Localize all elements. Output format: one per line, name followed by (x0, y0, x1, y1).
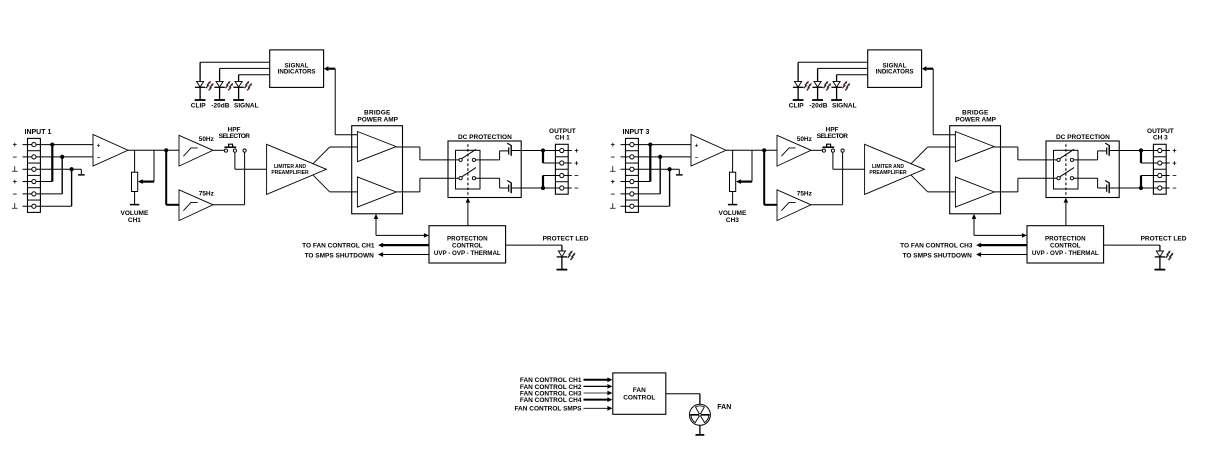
wire relay A to output device (476, 159, 500, 161)
wire FAN CONTROL CH3 (arrow) (584, 392, 609, 394)
svg-text:PROTECT LED: PROTECT LED (1141, 235, 1187, 242)
svg-text:BRIDGE: BRIDGE (962, 110, 989, 117)
svg-text:CONTROL: CONTROL (623, 395, 655, 402)
wire TO SMPS SHUTDOWN (arrow) (980, 254, 1027, 256)
wire to SIGNAL led (239, 74, 270, 76)
wire protection to DC relay (arrow up) (1065, 202, 1067, 226)
svg-text:75Hz: 75Hz (199, 191, 215, 198)
svg-text:50Hz: 50Hz (199, 136, 215, 143)
wire FAN CONTROL CH1 (arrow) (584, 379, 609, 381)
wire bridge out A (396, 146, 420, 148)
LED SIGNAL (235, 81, 242, 87)
wire switch pole to 75Hz out (842, 152, 844, 205)
svg-text:CONTROL: CONTROL (1050, 242, 1081, 249)
svg-text:TO SMPS SHUTDOWN: TO SMPS SHUTDOWN (903, 252, 973, 259)
svg-text:PREAMPLIFIER: PREAMPLIFIER (869, 170, 907, 176)
relay contact B (462, 168, 476, 177)
input terminal block J3 (626, 138, 639, 212)
wire to SIGNAL led (837, 74, 868, 76)
block FAN CONTROL (613, 373, 666, 414)
svg-text:FAN: FAN (633, 387, 646, 394)
output device Q-A (1106, 147, 1108, 154)
svg-text:CLIP: CLIP (191, 102, 206, 109)
potentiometer VOLUME CH1 (132, 172, 138, 191)
wire pot wiper (bold arrow) (142, 181, 155, 183)
svg-text:CH 3: CH 3 (1153, 135, 1168, 142)
svg-text:−: − (611, 189, 616, 198)
wire output A link (bold) (542, 151, 544, 164)
relay contact A (1060, 149, 1074, 158)
filter 50Hz HPF (777, 135, 811, 166)
svg-text:TO FAN CONTROL CH3: TO FAN CONTROL CH3 (900, 243, 973, 250)
relay box (456, 150, 481, 189)
svg-text:−: − (13, 189, 18, 198)
wire output A (511, 150, 543, 152)
svg-text:DC PROTECTION: DC PROTECTION (458, 134, 512, 141)
block BRIDGE POWER AMP PA3 (950, 126, 1001, 214)
svg-text:TO SMPS SHUTDOWN: TO SMPS SHUTDOWN (305, 252, 375, 259)
node output A junction (541, 148, 545, 152)
wire output B (511, 187, 543, 189)
output terminal block OUT3 (1153, 144, 1166, 194)
op-amp bridge half A (357, 132, 396, 162)
wire FAN CONTROL CH4 (arrow) (584, 399, 609, 401)
svg-text:CONTROL: CONTROL (452, 242, 483, 249)
wire to CLIP led (798, 61, 868, 63)
fan M1 (689, 404, 710, 425)
svg-text:POWER AMP: POWER AMP (357, 117, 398, 124)
wire input 1 pin6 link (23, 205, 72, 207)
output device Q-B (1106, 185, 1108, 192)
svg-text:-20dB: -20dB (809, 102, 827, 109)
wire fan control to fan (666, 393, 700, 395)
svg-text:FAN CONTROL CH4: FAN CONTROL CH4 (520, 397, 582, 404)
wire relay B to output device (1074, 177, 1098, 179)
svg-text:⊥: ⊥ (12, 165, 19, 174)
LED CLIP (197, 81, 204, 87)
node pin2 junction (658, 155, 662, 159)
svg-text:−: − (695, 156, 699, 162)
wire output A link (bold) (1140, 151, 1142, 164)
wire input 3 pin6 link (621, 205, 670, 207)
svg-text:DC PROTECTION: DC PROTECTION (1056, 134, 1110, 141)
wire protection to bridge (arrow up) (375, 218, 377, 235)
svg-text:-20dB: -20dB (211, 102, 229, 109)
wire TO FAN CONTROL CH3 (bold arrow) (980, 244, 1027, 246)
wire to -20dB led (818, 67, 868, 69)
svg-text:−: − (574, 184, 579, 193)
wire switch common to limiter (234, 152, 236, 169)
wire bridge out B (396, 191, 420, 193)
svg-text:SIGNAL: SIGNAL (234, 102, 259, 109)
wire protection to DC relay (arrow up) (467, 202, 469, 226)
wire input 3 pin1 hot to amp + (621, 144, 692, 146)
wire switch pole to 75Hz out (244, 152, 246, 205)
svg-text:FAN CONTROL SMPS: FAN CONTROL SMPS (514, 406, 582, 413)
relay contact B (1060, 168, 1074, 177)
node output A junction (1139, 148, 1143, 152)
wire output A (1109, 150, 1141, 152)
svg-text:UVP - OVP - THERMAL: UVP - OVP - THERMAL (434, 250, 501, 257)
LED SIGNAL (833, 81, 840, 87)
wire bridge tap to signal indicators (335, 134, 357, 136)
svg-text:FAN: FAN (717, 404, 731, 411)
svg-text:+: + (611, 140, 616, 149)
svg-text:TO FAN CONTROL CH1: TO FAN CONTROL CH1 (302, 243, 375, 250)
wire output B (1109, 187, 1141, 189)
wire input 1 pin4 link (23, 181, 53, 183)
svg-text:+: + (611, 177, 616, 186)
wire to volume pot (134, 150, 136, 172)
svg-text:+: + (13, 140, 18, 149)
relay actuator dashed line (1065, 144, 1067, 195)
wire bridge tap to signal indicators (933, 134, 955, 136)
wire relay B to output device (476, 177, 500, 179)
svg-text:+: + (574, 146, 579, 155)
block SIGNAL INDICATORS (270, 50, 324, 88)
filter 75Hz HPF (179, 190, 213, 221)
amplifier LIMITER AND PREAMPLIFIER U3 (865, 144, 925, 194)
amplifier LIMITER AND PREAMPLIFIER U1 (267, 144, 327, 194)
terminal contacts (630, 142, 634, 146)
node output B junction (1139, 186, 1143, 190)
ground (80, 169, 82, 175)
ground (678, 169, 680, 175)
svg-text:50Hz: 50Hz (797, 136, 813, 143)
block DC PROTECTION K1 (448, 141, 521, 198)
wire to volume pot (732, 150, 734, 172)
wire input 3 pin4 link (621, 181, 651, 183)
wire to protect LED (506, 244, 562, 246)
block PROTECTION CONTROL U1P (429, 226, 506, 263)
wire input 3 pin2 cold to amp - (621, 156, 692, 158)
svg-text:+: + (695, 143, 699, 149)
LED -20dB (814, 81, 821, 87)
wire FAN CONTROL CH2 (arrow) (584, 385, 609, 387)
svg-text:PROTECT LED: PROTECT LED (543, 235, 589, 242)
LED PROTECT D3 (1156, 251, 1163, 257)
output device Q-A (508, 147, 510, 154)
wire FAN CONTROL SMPS (arrow) (584, 407, 609, 409)
node pin3 junction (70, 167, 74, 171)
svg-text:−: − (574, 171, 579, 180)
relay actuator dashed line (467, 144, 469, 195)
potentiometer VOLUME CH3 (730, 172, 736, 191)
svg-text:PROTECTION: PROTECTION (447, 235, 488, 242)
wire pin1-pin4 link (bold) (649, 145, 651, 182)
wire TO SMPS SHUTDOWN (arrow) (382, 254, 429, 256)
svg-text:−: − (1172, 171, 1177, 180)
switch SW HPF selector (811, 149, 822, 151)
wire limiter out B to bridge (928, 191, 956, 193)
svg-text:+: + (1172, 159, 1177, 168)
wire amp output (726, 149, 777, 151)
svg-text:SELECTOR: SELECTOR (817, 133, 849, 140)
svg-text:CH3: CH3 (726, 217, 739, 224)
block BRIDGE POWER AMP PA1 (352, 126, 403, 214)
op-amp bridge half B (357, 177, 396, 207)
svg-text:CH1: CH1 (128, 217, 141, 224)
wire input 1 pin5 link (23, 193, 63, 195)
op-amp input buffer A3a (691, 135, 726, 167)
node volume out (762, 148, 766, 152)
svg-text:INPUT 1: INPUT 1 (25, 129, 52, 136)
svg-text:INPUT 3: INPUT 3 (623, 129, 650, 136)
wire to protect LED (1104, 244, 1160, 246)
svg-text:−: − (13, 152, 18, 161)
wire pot wiper (bold arrow) (740, 181, 753, 183)
wire relay A to output device (1074, 159, 1098, 161)
wire limiter out A to bridge (928, 146, 956, 148)
node pin1 junction (50, 142, 54, 146)
wire to 75Hz filter (bold) (763, 150, 765, 205)
LED PROTECT D1 (558, 251, 565, 257)
terminal contacts (32, 142, 36, 146)
wire protection to bridge (arrow up) (973, 218, 975, 235)
node volume out (164, 148, 168, 152)
op-amp bridge half A (955, 132, 994, 162)
node pin3 junction (668, 167, 672, 171)
svg-text:+: + (13, 177, 18, 186)
wire to 75Hz filter (bold) (165, 150, 167, 205)
svg-text:75Hz: 75Hz (797, 191, 813, 198)
LED -20dB (216, 81, 223, 87)
svg-text:BRIDGE: BRIDGE (364, 110, 391, 117)
node pin2 junction (60, 155, 64, 159)
svg-text:SIGNAL: SIGNAL (832, 102, 857, 109)
svg-text:INDICATORS: INDICATORS (876, 68, 914, 75)
wire input 1 pin1 hot to amp + (23, 144, 94, 146)
svg-text:⊥: ⊥ (12, 202, 19, 211)
wire limiter out A to bridge (330, 146, 358, 148)
svg-text:+: + (1172, 146, 1177, 155)
svg-text:CH 1: CH 1 (555, 135, 570, 142)
wire input 3 pin5 link (621, 193, 661, 195)
ground fan (699, 425, 701, 435)
svg-text:−: − (1172, 184, 1177, 193)
wire output B link (bold) (1140, 176, 1142, 189)
svg-text:POWER AMP: POWER AMP (955, 117, 996, 124)
wire input 1 pin3 shield (23, 168, 82, 170)
relay contact A (462, 149, 476, 158)
wire input 3 pin3 shield (621, 168, 680, 170)
wire TO FAN CONTROL CH1 (bold arrow) (382, 244, 429, 246)
svg-text:+: + (574, 159, 579, 168)
block PROTECTION CONTROL U3P (1027, 226, 1104, 263)
svg-text:PROTECTION: PROTECTION (1045, 235, 1086, 242)
svg-text:CLIP: CLIP (789, 102, 804, 109)
svg-text:⊥: ⊥ (610, 202, 617, 211)
svg-text:UVP - OVP - THERMAL: UVP - OVP - THERMAL (1032, 250, 1099, 257)
wire bridge out A (994, 146, 1018, 148)
node pin1 junction (648, 142, 652, 146)
svg-text:PREAMPLIFIER: PREAMPLIFIER (271, 170, 309, 176)
wire amp output (128, 149, 179, 151)
wire input 1 pin2 cold to amp - (23, 156, 94, 158)
output terminal block OUT1 (555, 144, 568, 194)
filter 50Hz HPF (179, 135, 213, 166)
wire limiter out B to bridge (330, 191, 358, 193)
filter 75Hz HPF (777, 190, 811, 221)
svg-text:−: − (97, 156, 101, 162)
output device Q-B (508, 185, 510, 192)
svg-text:SELECTOR: SELECTOR (219, 133, 251, 140)
svg-text:−: − (611, 152, 616, 161)
svg-text:+: + (97, 143, 101, 149)
input terminal block J1 (28, 138, 41, 212)
svg-text:⊥: ⊥ (610, 165, 617, 174)
relay box (1054, 150, 1079, 189)
op-amp bridge half B (955, 177, 994, 207)
wire pin1-pin4 link (bold) (51, 145, 53, 182)
svg-text:INDICATORS: INDICATORS (278, 68, 316, 75)
wire to -20dB led (220, 67, 270, 69)
wire to CLIP led (200, 61, 270, 63)
wire switch common to limiter (832, 152, 834, 169)
node output B junction (541, 186, 545, 190)
wire output B link (bold) (542, 176, 544, 189)
op-amp input buffer A1a (93, 135, 128, 167)
switch SW HPF selector (213, 149, 224, 151)
block SIGNAL INDICATORS (868, 50, 922, 88)
block DC PROTECTION K3 (1046, 141, 1119, 198)
wire bridge out B (994, 191, 1018, 193)
LED CLIP (795, 81, 802, 87)
